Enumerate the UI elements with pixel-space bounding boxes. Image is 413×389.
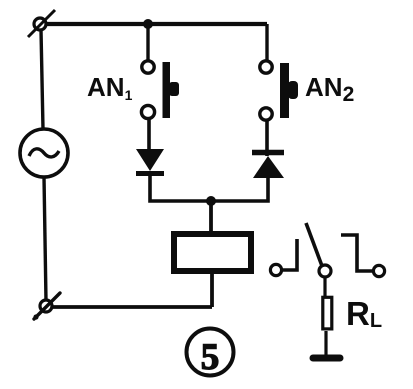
node top junction	[143, 19, 153, 29]
diode D1	[136, 149, 164, 174]
wire relay to bottom	[210, 274, 214, 307]
svg-text:5: 5	[201, 337, 220, 378]
AC source G1	[20, 129, 68, 177]
relay contact left terminal	[270, 239, 297, 276]
pushbutton AN1	[141, 61, 179, 119]
svg-text:AN1: AN1	[87, 72, 133, 103]
wire D1 to node	[150, 175, 212, 201]
wire AN1 drop	[146, 24, 149, 60]
wire AN1 to diode	[147, 118, 151, 151]
terminal top-left	[28, 10, 55, 37]
wire resistor to ground	[324, 331, 327, 356]
wire AN2 drop	[265, 24, 268, 60]
terminal bottom-left	[33, 293, 60, 320]
relay contact blade	[306, 223, 331, 277]
node center junction	[206, 196, 216, 206]
wire AN2 to diode	[265, 120, 269, 156]
svg-text:AN2: AN2	[305, 72, 354, 106]
wire node to relay	[209, 201, 213, 232]
ground	[313, 355, 340, 362]
figure number circle 5	[187, 329, 234, 376]
relay coil K1	[174, 234, 251, 271]
pushbutton AN2	[260, 61, 298, 120]
relay contact right terminal	[341, 235, 385, 277]
svg-text:RL: RL	[346, 295, 382, 332]
wire bottom horizontal	[52, 305, 212, 309]
wire left lower	[44, 177, 46, 301]
wire contact to resistor	[323, 277, 326, 297]
diode D2	[252, 153, 284, 179]
wire left upper	[41, 30, 43, 129]
wire D2 to node	[212, 178, 268, 201]
wire top horizontal	[44, 22, 267, 26]
resistor RL	[323, 297, 332, 329]
